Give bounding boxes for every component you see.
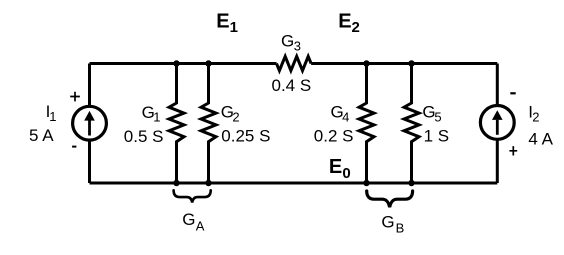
junction node dot bottom G4 — [363, 180, 370, 187]
wire: top rail, node E1 segment — [90, 62, 277, 65]
svg-text:2: 2 — [532, 110, 539, 125]
wire: G2 bottom lead — [207, 142, 210, 184]
svg-text:E: E — [216, 10, 229, 32]
junction node dot bottom G5 — [408, 180, 415, 187]
resistor G3 — [277, 56, 312, 70]
svg-text:1: 1 — [49, 109, 56, 124]
wire: G2 top lead — [207, 64, 210, 104]
current source I1 arrow — [88, 121, 91, 136]
svg-text:0.25 S: 0.25 S — [221, 127, 270, 146]
plus sign of I1 — [70, 92, 80, 102]
wire: bottom rail, node E0 — [90, 182, 498, 185]
wire: left vertical branch (I1 branch) — [88, 64, 91, 184]
svg-text:A: A — [196, 218, 205, 233]
resistor G2 — [201, 102, 216, 143]
junction node dot top G5 — [408, 60, 415, 67]
wire: G4 bottom lead — [365, 142, 368, 184]
minus sign of I1 — [72, 146, 76, 148]
junction node dot bottom G1 — [173, 180, 180, 187]
svg-text:1 S: 1 S — [424, 127, 450, 146]
junction node dot top G2 — [205, 60, 212, 67]
brace GA — [174, 190, 211, 202]
junction node dot bottom G2 — [205, 180, 212, 187]
plus sign of I2 — [509, 146, 517, 155]
wire: top rail, node E2 segment — [311, 62, 497, 65]
svg-text:G: G — [381, 213, 394, 232]
svg-text:0.5 S: 0.5 S — [124, 127, 164, 146]
svg-text:E: E — [338, 10, 351, 32]
svg-text:0.4 S: 0.4 S — [272, 76, 312, 95]
svg-text:E: E — [329, 156, 342, 178]
svg-text:5: 5 — [434, 110, 441, 125]
wire: G1 top lead — [175, 64, 178, 104]
minus sign of I2 — [510, 92, 515, 94]
svg-text:3: 3 — [294, 39, 301, 54]
svg-text:G: G — [182, 210, 195, 229]
svg-text:1: 1 — [153, 110, 160, 125]
svg-text:B: B — [396, 221, 405, 236]
svg-text:2: 2 — [232, 110, 239, 125]
junction node dot top G4 — [363, 60, 370, 67]
wire: right vertical branch (I2 branch) — [496, 64, 499, 184]
svg-text:1: 1 — [230, 19, 238, 36]
svg-text:4: 4 — [342, 110, 349, 125]
wire: G1 bottom lead — [175, 142, 178, 184]
svg-text:0: 0 — [342, 165, 350, 182]
resistor G5 — [404, 102, 419, 143]
resistor G4 — [359, 102, 374, 143]
brace GB — [367, 191, 413, 207]
svg-text:0.2 S: 0.2 S — [314, 127, 354, 146]
svg-text:5 A: 5 A — [29, 126, 54, 145]
junction node dot top G1 — [173, 60, 180, 67]
resistor G1 — [169, 102, 184, 143]
svg-text:2: 2 — [352, 19, 360, 36]
current source I2 arrow — [496, 120, 499, 135]
current source I1 circle — [73, 106, 107, 140]
svg-text:G: G — [281, 32, 294, 51]
wire: G5 top lead — [410, 64, 413, 104]
current source I2 circle — [480, 106, 514, 140]
wire: G5 bottom lead — [410, 142, 413, 184]
svg-text:4 A: 4 A — [528, 129, 553, 148]
wire: G4 top lead — [365, 64, 368, 104]
